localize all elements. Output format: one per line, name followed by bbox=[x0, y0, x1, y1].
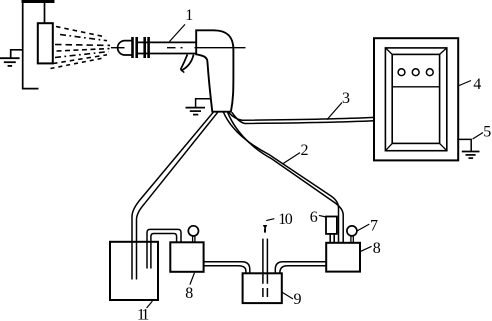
svg-text:8: 8 bbox=[373, 240, 381, 257]
control box middle frame bbox=[385, 48, 446, 151]
leader line 3 bbox=[327, 103, 342, 120]
svg-text:5: 5 bbox=[483, 123, 491, 140]
leader line 11 bbox=[147, 301, 153, 308]
hanger column bbox=[23, 2, 39, 89]
gun axis centerline bbox=[111, 47, 183, 49]
gauge 7 bbox=[347, 226, 357, 236]
leader line 6 bbox=[319, 215, 326, 217]
svg-text:6: 6 bbox=[310, 209, 318, 226]
panel divider bbox=[392, 86, 439, 88]
svg-text:2: 2 bbox=[301, 142, 309, 159]
trigger bbox=[181, 55, 188, 70]
leader line 9 bbox=[282, 292, 293, 299]
leader line 5 bbox=[473, 133, 483, 140]
ground (left) bbox=[0, 58, 20, 66]
cable 3 to control box bbox=[229, 112, 375, 123]
gun axis through body bbox=[195, 47, 246, 49]
conveyor rail (thick top bar) bbox=[22, 0, 55, 3]
svg-text:4: 4 bbox=[473, 76, 481, 93]
ground (box) bbox=[462, 152, 480, 159]
spray cloud dashes bbox=[51, 27, 111, 69]
svg-text:1: 1 bbox=[185, 7, 193, 24]
workpiece bbox=[38, 23, 53, 63]
svg-text:9: 9 bbox=[294, 291, 302, 308]
control box 4 outer bbox=[374, 38, 458, 160]
gun nozzle bbox=[118, 41, 132, 55]
svg-text:3: 3 bbox=[342, 90, 350, 107]
hose 2 (left branch to powder container) bbox=[132, 112, 218, 279]
leader line 1 bbox=[170, 24, 186, 41]
frame bevels bbox=[385, 48, 446, 151]
pipe fluidizing pot to injector box bbox=[275, 262, 326, 274]
leader line 2 bbox=[283, 153, 300, 164]
gauge on left box bbox=[188, 226, 198, 236]
fluidizing pot 9 bbox=[243, 273, 282, 303]
tube 10 inlet arrow bbox=[263, 225, 267, 230]
leader line 4 bbox=[458, 81, 471, 87]
svg-text:8: 8 bbox=[185, 285, 193, 302]
hanger rod bbox=[44, 2, 46, 23]
gun barrel bbox=[138, 41, 197, 43]
suction tube container11 to pump box bbox=[147, 229, 181, 268]
powder container 11 bbox=[110, 242, 158, 300]
leader line 8 right bbox=[360, 246, 372, 251]
pump box 8 (left) bbox=[170, 242, 203, 271]
control box inner panel bbox=[392, 54, 439, 143]
ground 5 stem bbox=[457, 139, 471, 151]
leader line 7 bbox=[357, 224, 369, 231]
svg-text:10: 10 bbox=[278, 211, 293, 228]
tube 10 bbox=[263, 239, 268, 297]
gun body and handle bbox=[196, 30, 233, 111]
panel knobs bbox=[398, 69, 405, 76]
gun ground stem bbox=[196, 99, 211, 108]
hose 2 (right branch to injector box) bbox=[224, 112, 344, 243]
ground (gun) bbox=[186, 108, 206, 115]
svg-text:7: 7 bbox=[370, 218, 378, 235]
leader line 10 bbox=[266, 219, 274, 221]
component 6 valve bbox=[326, 217, 337, 234]
workpiece ground stem bbox=[11, 50, 23, 58]
leader line 8 left bbox=[190, 273, 195, 285]
injector box 8 (right) bbox=[326, 243, 360, 272]
nozzle flange bars bbox=[131, 37, 150, 58]
pipe left box to fluidizing pot bbox=[204, 262, 250, 274]
